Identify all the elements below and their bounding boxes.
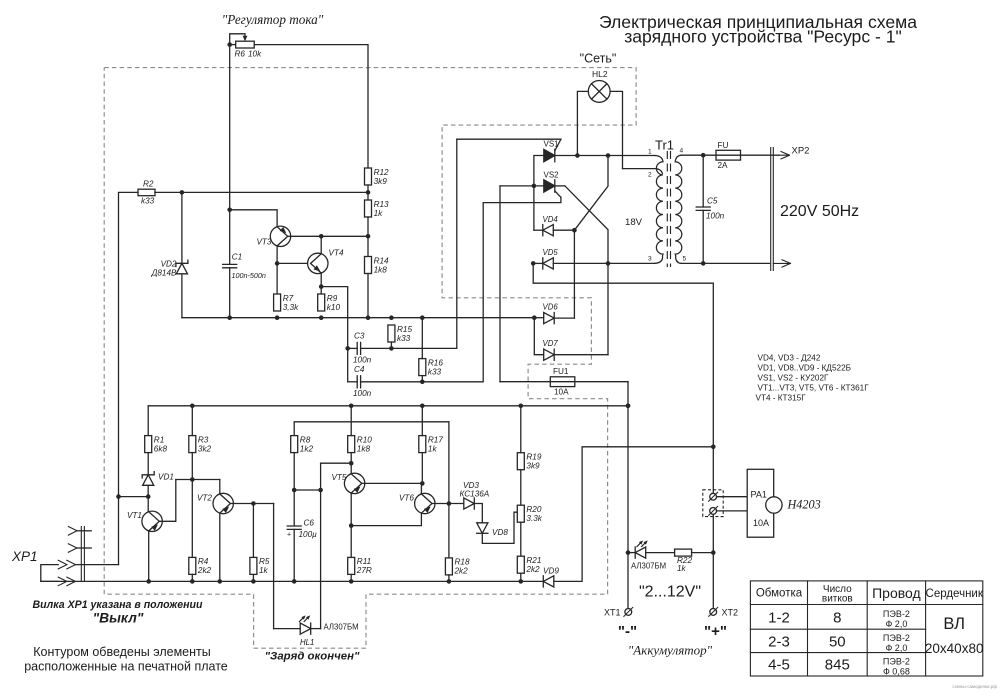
wire VT5 base [362, 482, 423, 484]
svg-text:R20: R20 [526, 505, 541, 514]
wire VS2 gate line [483, 197, 561, 202]
svg-text:VD9: VD9 [543, 567, 559, 576]
svg-text:"2...12V": "2...12V" [639, 584, 701, 601]
svg-text:Ф 0,68: Ф 0,68 [883, 667, 910, 677]
svg-text:АЛ307БМ: АЛ307БМ [631, 562, 666, 571]
junction mid bus R9 [319, 315, 324, 320]
svg-text:2A: 2A [718, 161, 729, 170]
wire VD7 riser [607, 263, 609, 354]
transistor VT6 [415, 493, 435, 513]
svg-text:50: 50 [829, 634, 846, 651]
svg-text:1k: 1k [428, 444, 438, 453]
junction C4 row R16 [420, 380, 425, 385]
svg-text:VD8: VD8 [492, 528, 508, 537]
XP1 contact 4 [58, 577, 75, 586]
wire VT2 emitter [219, 513, 221, 581]
svg-text:C6: C6 [304, 519, 315, 528]
LED АЛ307БМ [635, 547, 646, 558]
svg-text:VD5: VD5 [543, 248, 559, 257]
wire R20 to R21 [520, 522, 522, 556]
svg-text:k33: k33 [428, 367, 442, 376]
wire C1 bottom [229, 268, 231, 318]
wire VT6 collector [420, 483, 422, 494]
diode VD4 [543, 225, 554, 236]
zener diode VD8 [477, 523, 488, 534]
svg-text:R5: R5 [259, 557, 270, 566]
junction bus R21 [519, 579, 524, 584]
svg-text:3,3k: 3,3k [283, 303, 299, 312]
junction VT5 emitter / VT6 emitter [349, 523, 354, 528]
svg-text:3k9: 3k9 [526, 462, 540, 471]
svg-text:3.3k: 3.3k [526, 514, 542, 523]
wire R2 left to XP1 pin3 vertical [119, 192, 139, 564]
wire C6 link right [294, 489, 320, 491]
svg-text:10k: 10k [248, 50, 262, 59]
wire VS1 gate lead [555, 139, 561, 150]
svg-text:1k: 1k [374, 209, 384, 218]
svg-text:VT2: VT2 [197, 494, 212, 503]
resistor R3 [189, 435, 212, 453]
junction minus bus R19 [519, 404, 524, 409]
wire VD3 cathode to VD8 [474, 504, 482, 523]
HL1 emission arrows [300, 615, 311, 621]
Tr1 pin2 stub [623, 169, 663, 174]
svg-text:ВЛ: ВЛ [943, 615, 965, 633]
svg-text:"Заряд окончен": "Заряд окончен" [265, 651, 360, 663]
transistor VT4 [308, 253, 328, 273]
junction pin3 row VD7 riser [606, 261, 611, 266]
svg-text:VT4: VT4 [329, 249, 344, 258]
XP1 contact 1 [68, 527, 77, 536]
wire R17 top [421, 406, 423, 436]
svg-text:ПЭВ-2: ПЭВ-2 [883, 657, 910, 667]
resistor R13 [365, 200, 390, 218]
wire R6 to R12 top [254, 45, 368, 168]
wire R18 column [448, 504, 450, 558]
wire VT2 base row [230, 503, 273, 505]
junction bus R4 [190, 579, 195, 584]
wire R3 R4 link row [176, 479, 220, 481]
junction R17 VT5 base VT6 collector [420, 481, 425, 486]
svg-text:k10: k10 [327, 303, 341, 312]
thyristor VS1 [544, 149, 555, 161]
svg-text:845: 845 [825, 657, 850, 674]
svg-text:ПЭВ-2: ПЭВ-2 [883, 609, 910, 619]
svg-text:XP1: XP1 [11, 549, 38, 564]
wire HL2 right [610, 91, 622, 168]
terminal XT2 [709, 607, 718, 616]
wire VD6 anode to VD7 anode [534, 318, 543, 355]
XP2 plug double line [771, 148, 774, 271]
junction VT6 base node [447, 501, 452, 506]
svg-text:Tr1: Tr1 [655, 138, 674, 153]
wire LED anode to R22 [646, 552, 675, 554]
wire screw2 to PA1 [717, 510, 748, 512]
fuse FU1 [500, 367, 628, 396]
XP1 contact 2 [68, 544, 77, 553]
wire VD1 bottom [147, 485, 149, 496]
svg-text:VD2: VD2 [161, 260, 177, 269]
junction VT2 base R5 [251, 501, 256, 506]
svg-text:+: + [287, 532, 291, 539]
wire screw1 to PA1 [717, 496, 748, 498]
junction link row R3R4 [190, 477, 195, 482]
wire VD6 cathode up [554, 317, 574, 319]
wire R8 bottom [293, 453, 295, 490]
junction pin1 row HL2 [575, 153, 580, 158]
junction VT5 collector tap [349, 461, 354, 466]
resistor R2 [138, 180, 155, 206]
wire crossover diagonal VD4-to-pin1 [574, 156, 608, 231]
wire plus rail to screw1 [712, 447, 714, 493]
resistor R16 [419, 358, 444, 376]
wire R13-R14 [367, 217, 369, 257]
resistor R10 [348, 435, 373, 453]
Tr1 secondary winding (pins 4-5) [675, 155, 682, 263]
svg-text:"Сеть": "Сеть" [580, 52, 617, 66]
junction bus C6 [292, 579, 297, 584]
fuse FU [716, 141, 741, 170]
junction VT3 collector / VT4 base [275, 261, 280, 266]
svg-text:18V: 18V [625, 217, 643, 228]
wire VD4 anode to junction [553, 229, 574, 231]
diode VD9 [543, 576, 554, 587]
wire R3 top [191, 406, 193, 436]
resistor R4 [189, 557, 212, 575]
wire VS2 anode feed from FU1 riser [500, 185, 544, 187]
svg-text:XT2: XT2 [722, 608, 739, 618]
wire R8 top hook [294, 422, 449, 436]
svg-text:R14: R14 [374, 256, 389, 265]
junction VS2 anode [532, 184, 537, 189]
resistor R19 [517, 453, 542, 471]
svg-text:3: 3 [648, 256, 652, 263]
wire VD5 cathode stub [533, 262, 543, 264]
junction bus VT2 emitter [218, 579, 223, 584]
wire VS1 cathode row to Tr1 pin1 [555, 155, 655, 157]
svg-text:XT1: XT1 [604, 608, 621, 618]
junction VT4 emitter / C3C4 branch [319, 284, 324, 289]
junction mid bus R15 [389, 315, 394, 320]
junction minus bus R17 [420, 404, 425, 409]
svg-text:2k2: 2k2 [454, 567, 469, 576]
resistor R11 [348, 557, 372, 575]
PA1 connector dashed box [703, 490, 723, 517]
wire R1 column top [147, 406, 149, 436]
svg-text:27R: 27R [356, 566, 372, 575]
svg-text:Вилка ХР1 указана в положении: Вилка ХР1 указана в положении [33, 599, 203, 611]
svg-text:HL1: HL1 [300, 638, 314, 647]
zener diode VD2 [176, 260, 188, 274]
svg-text:20х40х80: 20х40х80 [925, 641, 984, 656]
wire R3 to R4 [191, 453, 193, 558]
resistor R9 [318, 294, 341, 312]
wire VT4 collector [320, 236, 322, 254]
wire screw2 to XT2 [712, 514, 714, 608]
junction R6 left [227, 42, 232, 47]
wire R5 column [252, 504, 254, 558]
svg-text:VS1, VS2 - КУ202Г: VS1, VS2 - КУ202Г [758, 374, 829, 383]
junction minus bus XT1 rail [626, 404, 631, 409]
svg-text:8: 8 [833, 610, 841, 627]
svg-text:C4: C4 [354, 365, 365, 374]
svg-text:зарядного устройства "Ресурс -: зарядного устройства "Ресурс - 1" [624, 26, 902, 46]
svg-text:ПЭВ-2: ПЭВ-2 [883, 633, 910, 643]
svg-text:1-2: 1-2 [768, 610, 790, 627]
svg-text:6k8: 6k8 [154, 444, 168, 453]
lamp HL2 [588, 69, 610, 102]
junction XT1 rail LED [626, 550, 631, 555]
wire R19 top [520, 406, 522, 453]
svg-text:Ф 2,0: Ф 2,0 [885, 619, 907, 629]
wire R6 left stub [230, 44, 236, 46]
wire pin5 row [681, 262, 769, 264]
wire VT3 base row [288, 235, 368, 237]
wire C1 top [229, 210, 231, 265]
wire R11 bottom [350, 574, 352, 581]
junction R8 C6 [292, 488, 297, 493]
wire R16 top [421, 318, 423, 359]
svg-text:100n: 100n [353, 389, 372, 398]
wire VD8 to R20 tap [482, 512, 517, 543]
svg-text:R19: R19 [526, 453, 541, 462]
svg-text:VD4, VD3 - Д242: VD4, VD3 - Д242 [758, 354, 821, 363]
potentiometer R6 [235, 41, 263, 58]
svg-text:3k9: 3k9 [374, 177, 388, 186]
svg-text:R18: R18 [455, 558, 470, 567]
XP1 mating jumper [41, 565, 58, 582]
junction bus R5 [251, 579, 256, 584]
wire FU to XP2 [741, 154, 780, 156]
parts list [756, 354, 870, 403]
wire VD5 cathode to plus rail [533, 263, 713, 446]
capacitor C3 [353, 332, 372, 365]
svg-text:Провод: Провод [872, 585, 921, 601]
wire R10 bottom [350, 453, 352, 474]
resistor R21 [517, 556, 541, 574]
junction mid bus R7 [275, 315, 280, 320]
dashed PCB outline [104, 68, 636, 649]
wire VT6 base [432, 503, 449, 505]
svg-text:VT4 - КТ315Г: VT4 - КТ315Г [756, 394, 807, 403]
wire XP1 feed to VD1 junction [119, 496, 149, 498]
wire pin4 row [681, 154, 716, 156]
svg-text:R16: R16 [428, 358, 443, 367]
junction pin1 row crossover [606, 153, 611, 158]
svg-text:R1: R1 [154, 435, 164, 444]
junction XT1 rail / minus bus [626, 404, 631, 409]
junction C5 bottom [701, 261, 706, 266]
svg-text:FU: FU [718, 141, 729, 150]
wire R15 bottom to C3 row [390, 342, 392, 348]
svg-text:"-": "-" [618, 623, 637, 640]
wire VD2 column [181, 192, 183, 317]
wire crossover diagonal VS2-to-pin3 [565, 186, 608, 264]
svg-text:VD1, VD8..VD9 - КД522Б: VD1, VD8..VD9 - КД522Б [758, 364, 852, 373]
wire R18 bottom [448, 575, 450, 582]
capacitor C1 [223, 253, 266, 280]
wire VS1 anode down to VS2 anode [534, 156, 544, 231]
svg-text:1k8: 1k8 [357, 444, 371, 453]
wire VT1 base [159, 480, 176, 522]
wire mid bus [182, 317, 534, 319]
svg-text:k33: k33 [141, 197, 155, 206]
wire R10 top [350, 406, 352, 436]
junction minus bus R10 [349, 404, 354, 409]
wire LED cathode stub [628, 552, 635, 554]
svg-text:R7: R7 [283, 294, 294, 303]
wire R14 bottom to mid bus [367, 274, 369, 318]
wire VT6 base node riser [448, 422, 450, 504]
svg-text:Ф 2,0: Ф 2,0 [885, 643, 907, 653]
wire VT5 emitter [350, 493, 352, 557]
resistor R20 [517, 505, 542, 523]
svg-text:HL2: HL2 [592, 69, 608, 79]
svg-text:R21: R21 [526, 556, 541, 565]
wire VD9 anode to riser [554, 447, 714, 582]
zener diode VD1 [142, 472, 154, 486]
LED HL1 [300, 623, 311, 634]
svg-text:R8: R8 [300, 435, 311, 444]
wire HL1 right [311, 628, 321, 630]
wire R6 wiper loop [230, 34, 245, 45]
terminal screw lower [709, 506, 718, 515]
diode VD7 [544, 349, 555, 360]
svg-text:100n-500n: 100n-500n [232, 271, 266, 280]
wire C3 row right to VS1 gate riser [361, 139, 457, 348]
svg-text:R6: R6 [235, 50, 246, 59]
winding table [750, 581, 982, 676]
terminal screw upper [709, 492, 718, 501]
transistor VT1 [142, 511, 162, 531]
wire VT1 emitter [148, 531, 150, 581]
svg-text:VS2: VS2 [544, 171, 560, 180]
svg-text:КС136А: КС136А [460, 490, 490, 499]
resistor R17 [419, 435, 444, 453]
svg-text:4: 4 [680, 148, 684, 155]
junction mid bus R12 column [366, 315, 371, 320]
svg-text:4-5: 4-5 [768, 657, 790, 674]
wire XT1 rail [627, 382, 629, 609]
svg-text:FU1: FU1 [553, 367, 569, 376]
thyristor VS2 [544, 180, 555, 192]
junction mid bus C1 [227, 315, 232, 320]
svg-text:2k2: 2k2 [197, 566, 212, 575]
wire VT6 emitter [351, 513, 421, 526]
svg-text:5: 5 [683, 256, 687, 263]
wire R2 right to R12 column [155, 191, 368, 193]
svg-text:1: 1 [648, 149, 652, 156]
svg-text:"Аккумулятор": "Аккумулятор" [628, 643, 713, 658]
junction R2/VD2 column [180, 190, 185, 195]
svg-text:1k2: 1k2 [300, 444, 314, 453]
wire R4 bottom [191, 574, 193, 581]
svg-text:R11: R11 [357, 557, 371, 566]
junction VT4 collector on VT3 base row [319, 234, 324, 239]
XP2 arrow bottom [773, 260, 790, 267]
wire C3 row [348, 347, 358, 349]
svg-text:R12: R12 [374, 168, 389, 177]
svg-text:VT1: VT1 [127, 511, 142, 520]
wire R22 to XT2 rail [692, 552, 714, 554]
resistor R1 [145, 435, 168, 453]
diode VD3 [464, 498, 475, 509]
svg-text:витков: витков [822, 594, 853, 605]
svg-text:R9: R9 [327, 294, 338, 303]
resistor R5 [250, 557, 270, 575]
wire R5 bottom [252, 574, 254, 581]
svg-text:VD1: VD1 [158, 473, 174, 482]
wire VT2 collector [219, 480, 221, 494]
wire R21 bottom [520, 573, 522, 581]
LED emission arrows [637, 540, 648, 546]
svg-text:VD7: VD7 [543, 339, 559, 348]
wire C1 to VT3 emitter [230, 210, 277, 227]
wire VT4 emitter to R9 [320, 273, 322, 294]
svg-text:расположенные на печатной плат: расположенные на печатной плате [24, 660, 228, 674]
resistor R14 [365, 256, 390, 274]
ammeter PA1 [747, 469, 782, 537]
svg-text:C5: C5 [707, 197, 718, 206]
junction bus VT1 emitter [146, 579, 151, 584]
svg-text:R13: R13 [374, 200, 389, 209]
junction C3 left column [345, 346, 350, 351]
svg-text:VD6: VD6 [543, 303, 559, 312]
wire R17 bottom [421, 453, 423, 484]
wire VT1 collector [147, 497, 149, 512]
wire VS1 gate line [457, 138, 561, 140]
wire VT3 collector to R7 [276, 246, 278, 294]
transistor VT2 [213, 493, 233, 513]
junction C1 top / VT3 base feed [227, 208, 232, 213]
svg-text:Обмотка: Обмотка [756, 588, 803, 600]
wire VD3 anode stub [449, 503, 464, 505]
svg-text:2-3: 2-3 [768, 634, 790, 651]
svg-text:2: 2 [648, 172, 652, 179]
XP2 arrow top [779, 152, 790, 159]
svg-text:АЛ307БМ: АЛ307БМ [324, 623, 359, 632]
XP1 contact 3 [58, 560, 75, 569]
wire minus bus [148, 405, 628, 407]
capacitor C4 [353, 365, 372, 398]
junction XT2 rail R22 [711, 550, 716, 555]
svg-text:100n: 100n [353, 356, 372, 365]
svg-text:Контуром обведены элементы: Контуром обведены элементы [33, 645, 210, 659]
wire VT4 emitter branch to C3/C4 column [321, 287, 348, 382]
svg-text:VT1...VT3, VT5, VT6 - КТ361Г: VT1...VT3, VT5, VT6 - КТ361Г [758, 384, 870, 393]
wire VS2 gate lead [555, 191, 561, 197]
wire VD4 anode down to VD6 cathode [573, 230, 575, 318]
svg-text:2k2: 2k2 [525, 565, 540, 574]
junction VD5 cathode [531, 261, 536, 266]
junction VD1 / VT1 collector [146, 494, 151, 499]
svg-text:VS1: VS1 [544, 140, 560, 149]
wire VD7 cathode [554, 354, 608, 356]
svg-text:R3: R3 [198, 435, 209, 444]
Tr1 primary-side winding (pins 1-2-3) [655, 156, 664, 264]
wire HL2 left [577, 91, 588, 155]
svg-text:"Регулятор тока": "Регулятор тока" [222, 12, 324, 27]
resistor R22 [675, 549, 693, 573]
wire XP1 pin3 stub [76, 564, 119, 566]
svg-text:3k2: 3k2 [198, 444, 212, 453]
svg-text:R10: R10 [357, 435, 372, 444]
XP1 body double line [81, 527, 84, 582]
svg-text:Сердечник: Сердечник [926, 588, 984, 600]
svg-text:Н4203: Н4203 [787, 498, 821, 512]
wire VS2 cathode [555, 185, 565, 187]
wire VT4 base [277, 262, 307, 264]
